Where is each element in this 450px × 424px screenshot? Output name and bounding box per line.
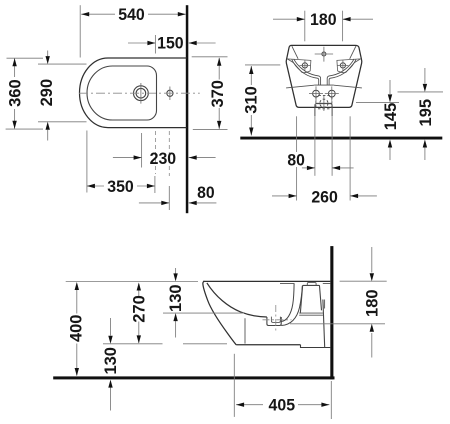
dimension 540 [81, 13, 186, 15]
extension line front (405) [233, 354, 235, 417]
dimension 360 [14, 58, 16, 129]
svg-text:130: 130 [101, 347, 120, 375]
bowl U inner right [327, 59, 354, 85]
rear bottom edge [323, 300, 325, 348]
extension line wall (405) [330, 381, 332, 419]
dimension 80 (front) [302, 167, 354, 169]
side hole vertical centerline [169, 87, 171, 101]
right base diagonal [334, 85, 362, 88]
svg-text:150: 150 [157, 33, 184, 52]
drain shroud [315, 104, 332, 117]
svg-text:310: 310 [242, 86, 261, 114]
deck line right of chimney [323, 283, 331, 285]
rear edge second line [324, 300, 326, 309]
svg-text:290: 290 [37, 79, 56, 107]
dimension 195 [424, 68, 426, 160]
dimension 350 [87, 185, 155, 187]
svg-text:540: 540 [118, 5, 145, 24]
svg-text:130: 130 [166, 284, 185, 312]
svg-text:405: 405 [269, 396, 296, 415]
extension lines (360) [7, 57, 44, 59]
dimension 405 [236, 404, 329, 406]
extension line drain level (145) [356, 101, 399, 103]
svg-text:360: 360 [5, 79, 24, 107]
dimension 180 right [371, 247, 373, 358]
dimension 370 [218, 58, 220, 129]
stem base [314, 84, 334, 86]
svg-text:400: 400 [66, 315, 85, 343]
wall line (front view, thick horizontal) [240, 137, 442, 140]
extension line underside level [103, 343, 163, 345]
front profile [203, 281, 236, 344]
bowl curve (section) [207, 283, 267, 317]
dimension 270 [138, 284, 140, 343]
drain cup inner [271, 317, 280, 323]
bowl U outer right [329, 60, 356, 86]
dimension 310 [250, 66, 252, 136]
svg-text:370: 370 [208, 80, 227, 108]
extension line bolts level (195) [398, 91, 444, 93]
dimension 80 (plan) [139, 202, 217, 204]
svg-text:350: 350 [107, 177, 134, 196]
svg-text:145: 145 [381, 103, 400, 131]
rim extension line left [66, 281, 198, 283]
bottom step near wall [301, 345, 331, 348]
extension line left edge (540) [79, 5, 81, 57]
trap inner curve [281, 283, 294, 321]
left pocket [287, 59, 311, 73]
faucet hole (plan, double circle) [134, 86, 149, 101]
drain centerline horizontal [263, 319, 292, 321]
drain centerline vertical [275, 305, 277, 331]
right bolt hole [328, 90, 335, 97]
dashed extension line inner rim [155, 131, 157, 174]
inner shell line [244, 318, 246, 343]
svg-text:195: 195 [416, 99, 435, 127]
dimension 130 lower [110, 318, 112, 411]
drain outlet level line [290, 323, 385, 325]
extension line side hole lower (80) [168, 186, 170, 210]
extension line faucet center (230) [141, 133, 143, 168]
trap outer curve / chimney left [281, 286, 302, 326]
dimension 260 [272, 195, 377, 197]
right corner diagonal [350, 46, 356, 59]
svg-text:260: 260 [311, 188, 338, 207]
faucet hole (front) [322, 52, 326, 56]
extension line shelf level (130 upper) [163, 312, 244, 314]
drain hole (dashed) [320, 99, 328, 107]
extension line 310 [245, 64, 280, 66]
extension line inner rim lower (350) [154, 176, 156, 193]
extension lines below (80 inner pair) [314, 116, 316, 176]
bidet outer outline (plan) [80, 58, 187, 128]
collar tab [307, 283, 316, 286]
dimension 230 [113, 157, 216, 159]
dimension 145 [389, 80, 391, 160]
faucet vertical centerline [140, 83, 142, 104]
bottom flat front [236, 344, 300, 346]
bidet outline (front) [286, 45, 362, 107]
bowl U inner left [294, 59, 321, 85]
dimension 180 (front) [273, 18, 373, 20]
extension line (150) [154, 35, 156, 54]
dimension 290 [47, 51, 49, 141]
left pocket hole [302, 63, 307, 68]
extension lines 180 (front top) [304, 11, 306, 42]
svg-text:80: 80 [197, 183, 215, 202]
left corner diagonal [292, 46, 298, 59]
rim top line [203, 280, 330, 282]
left base diagonal [286, 85, 314, 88]
dimension 130 upper [175, 268, 177, 338]
dimension 150 [128, 42, 216, 44]
svg-text:270: 270 [129, 295, 148, 323]
bowl U outer left [292, 60, 319, 86]
dashed extension line side hole [168, 131, 170, 176]
extension lines below (260 outer pair) [297, 116, 351, 200]
drain cup outer [267, 317, 281, 326]
left bolt hole [313, 90, 320, 97]
chimney (tap hole section) [300, 285, 321, 313]
dimension 400 [76, 284, 78, 376]
right pocket [337, 59, 361, 73]
side hole (plan) [167, 90, 173, 96]
deck line left (far rim edge) [280, 283, 294, 285]
wall line (top view, thick vertical) [186, 5, 189, 213]
rim extension right of wall (180) [340, 280, 387, 282]
floor line (thick horizontal) [53, 376, 334, 379]
wall line (side view, thick vertical) [330, 246, 333, 379]
right pocket hole [340, 63, 345, 68]
svg-text:80: 80 [287, 150, 305, 169]
extension lines (290) [38, 63, 87, 65]
horizontal centerline (plan) [79, 92, 200, 94]
svg-text:230: 230 [150, 149, 177, 168]
extension lines (370) [192, 56, 228, 58]
svg-text:180: 180 [310, 10, 337, 29]
svg-text:180: 180 [362, 289, 381, 317]
extension line inner rim left (350) [86, 131, 88, 193]
bidet inner rim (plan) [87, 66, 157, 120]
shelf lines [299, 312, 323, 314]
